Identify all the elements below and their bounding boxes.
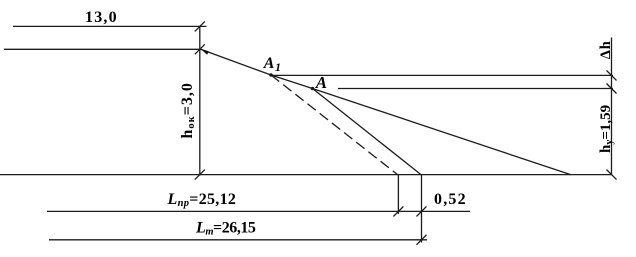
svg-text:Δh: Δh <box>598 40 614 59</box>
svg-text:13,0: 13,0 <box>85 9 118 26</box>
svg-text:Lпр=25,12: Lпр=25,12 <box>167 191 237 209</box>
svg-text:hу=1,59: hу=1,59 <box>598 105 615 153</box>
svg-text:hок=3,0: hок=3,0 <box>179 82 197 138</box>
svg-text:A: A <box>315 73 327 92</box>
svg-text:0,52: 0,52 <box>434 191 467 208</box>
svg-text:Lт=26,15: Lт=26,15 <box>195 220 256 238</box>
